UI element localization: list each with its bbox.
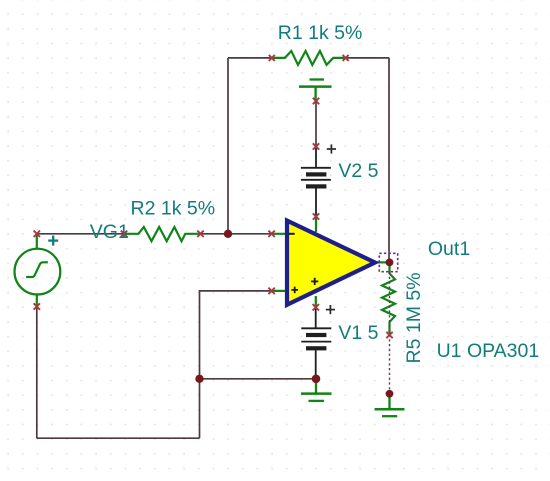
wire bottom rail up to node [199,379,201,438]
battery V1 [301,307,331,379]
wire VG1 top to R2 [37,233,124,235]
V2 plus sign [327,144,336,153]
wire R2 to inverting input [201,233,272,235]
op-amp U1 body [287,221,375,305]
op-amp minus input mark [289,233,295,235]
wire top feedback right segment [346,57,390,59]
svg-text:U1 OPA301: U1 OPA301 [437,340,540,362]
pin cross marks [34,55,393,338]
wire top feedback left segment [228,57,271,59]
junction dot output node [386,259,394,267]
wire bottom rail [37,437,200,439]
svg-text:V1 5: V1 5 [338,322,378,344]
ground bottom middle [301,379,332,401]
junction dot V1 ground node [312,375,321,384]
x op-amp bottom pin [313,304,319,310]
svg-text:R2 1k 5%: R2 1k 5% [131,197,216,219]
battery V2 [301,147,331,217]
junction dot left bottom node [195,375,203,383]
wire ground to V2 plus [315,101,317,147]
x R1 left pin [269,55,275,61]
wire feedback right vertical to output [388,58,390,263]
x VG1 bottom pin [34,303,40,309]
voltage source VG1 [15,234,61,307]
ground bottom right [375,394,405,416]
svg-text:VG1: VG1 [90,221,129,243]
ground under R1 (flipped) [299,80,332,102]
x op-amp top pin [313,213,319,219]
op-amp U1 pins (green stubs) [272,217,390,308]
wire VG1 bottom down [36,307,38,439]
x ground pin top [313,98,319,104]
x R2 right pin [197,231,203,237]
resistor R5 [382,264,395,335]
op-amp supply plus mark [311,278,318,285]
x R5 bottom pin [386,332,392,338]
x R1 right pin [343,55,349,61]
selection dashed box at output node [379,253,397,271]
resistor R1 [271,51,346,65]
junction dot inverting node [224,230,232,238]
x inverting input pin [268,231,274,237]
wire node to V1 bottom [200,378,317,380]
x V2 plus pin [313,143,319,149]
V1 plus sign [326,305,335,314]
junction dot R5 ground node [386,390,394,398]
x VG1 top pin [34,231,40,237]
VG1 plus sign [48,236,58,246]
resistor R2 [124,227,201,241]
x R2 left pin [121,231,127,237]
svg-text:R5 1M 5%: R5 1M 5% [403,272,425,363]
svg-text:Out1: Out1 [428,238,470,260]
x noninverting input pin [268,288,274,294]
wire feedback left vertical [227,58,229,234]
svg-text:R1 1k 5%: R1 1k 5% [278,22,363,44]
op-amp plus input mark [291,287,298,294]
svg-text:V2 5: V2 5 [338,160,378,182]
selection dashed line through R5 [389,262,391,391]
wire noninverting input corner [200,291,272,379]
